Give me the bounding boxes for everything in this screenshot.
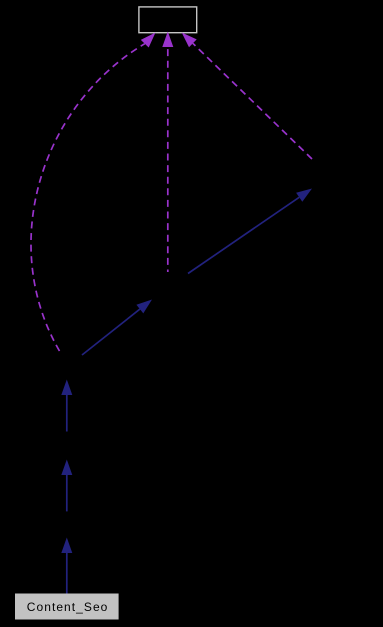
arrowhead of chain segment to left node	[61, 380, 72, 396]
Content_Seo node box	[15, 594, 119, 620]
arrowhead of right dashed edge	[182, 33, 197, 48]
arrowhead of Content_Seo edge	[61, 538, 72, 554]
solid inheritance edge chain segment to left node	[66, 395, 68, 432]
solid inheritance edge from left node to middle node	[82, 309, 140, 355]
solid inheritance edge chain middle segment	[66, 475, 68, 511]
dashed usage edge from left node to top box (curved)	[31, 44, 145, 351]
arrowhead of edge to middle node	[136, 300, 152, 314]
arrowhead of chain middle segment	[61, 460, 72, 476]
solid inheritance edge from Content_Seo node	[66, 553, 68, 594]
dashed usage edge from middle node to top box (vertical)	[167, 47, 169, 272]
top node box (empty label)	[139, 7, 197, 33]
svg-text:Content_Seo: Content_Seo	[27, 600, 109, 614]
arrowhead of left dashed edge	[141, 33, 156, 48]
arrowhead of edge to right node	[296, 189, 312, 202]
dashed usage edge from right node to top box (diagonal)	[193, 43, 312, 159]
arrowhead of middle dashed edge	[162, 32, 173, 48]
solid inheritance edge from middle node to right node	[188, 197, 299, 273]
